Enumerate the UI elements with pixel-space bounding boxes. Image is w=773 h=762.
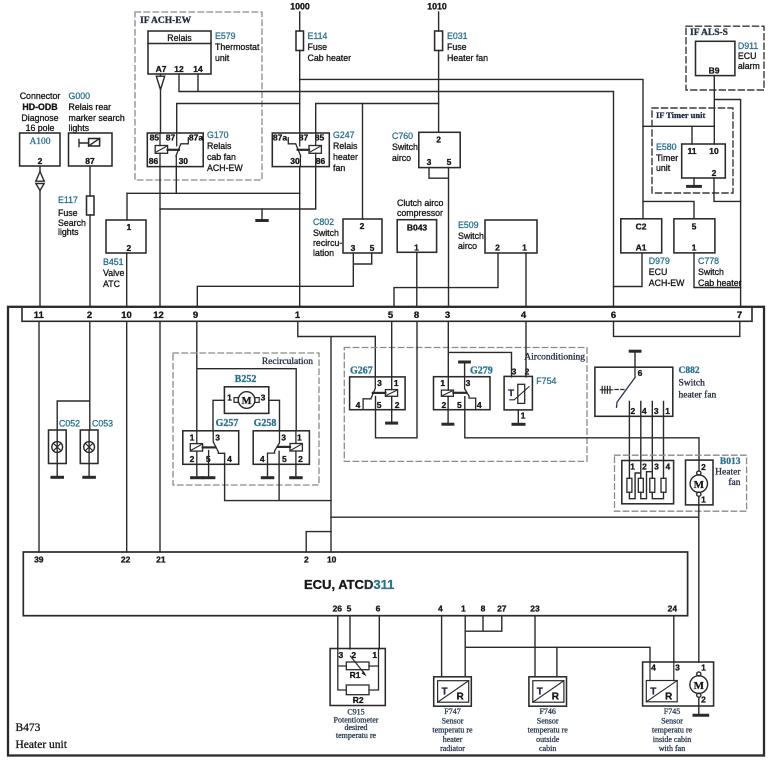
svg-text:G247: G247 [333, 130, 355, 140]
wire ECU 8,27 link [465, 616, 502, 632]
svg-text:6: 6 [611, 310, 616, 321]
wire E579 pins 12,14 to bus pin 6 [179, 74, 614, 307]
svg-text:IF ALS-S: IF ALS-S [690, 28, 728, 38]
wire C802 pins 3,5 join to bus 9 [197, 253, 371, 307]
svg-text:Heater unit: Heater unit [16, 739, 68, 751]
svg-text:3: 3 [466, 378, 471, 388]
wire y126 link to E114 rail [643, 125, 714, 127]
ECU ATC D311 box [23, 552, 687, 616]
svg-text:4: 4 [521, 310, 527, 321]
svg-text:1: 1 [190, 433, 195, 443]
fuse E117 search lights [58, 195, 94, 237]
connector symbol triangles [36, 172, 44, 191]
ground C053 [88, 464, 90, 476]
svg-text:B451: B451 [103, 257, 124, 267]
svg-text:Connector: Connector [20, 91, 61, 101]
svg-text:7: 7 [737, 310, 742, 321]
svg-text:3: 3 [654, 406, 659, 416]
svg-text:8: 8 [481, 604, 486, 614]
wire G267-5 to bus 8 [376, 321, 418, 438]
svg-text:Sensor: Sensor [537, 716, 559, 725]
svg-text:1000: 1000 [290, 2, 310, 12]
wire bus 12 to ECU 21 [159, 321, 161, 552]
ground C052 [56, 464, 58, 476]
svg-text:Timer: Timer [656, 153, 678, 163]
wire ECU-24 to F745-3 [673, 616, 675, 662]
svg-text:Relais: Relais [207, 141, 232, 151]
svg-text:temperatu re: temperatu re [652, 726, 693, 735]
ground F745-2 [698, 697, 700, 713]
svg-text:R: R [552, 692, 560, 703]
svg-text:Relais rear: Relais rear [69, 102, 112, 112]
svg-text:ATC: ATC [103, 279, 121, 289]
svg-text:12: 12 [153, 310, 164, 321]
svg-text:3: 3 [261, 393, 266, 403]
connector A100 (HD-ODB diagnose) [20, 91, 61, 166]
svg-text:1: 1 [701, 495, 706, 505]
svg-text:4: 4 [438, 604, 443, 614]
svg-text:2: 2 [87, 310, 92, 321]
svg-text:10: 10 [121, 310, 132, 321]
wire G000 pin 87 down [89, 166, 91, 196]
svg-text:C778: C778 [698, 256, 719, 266]
svg-text:86: 86 [149, 156, 159, 166]
sensor F747 [434, 677, 472, 706]
svg-text:4: 4 [666, 462, 671, 472]
resistor R d [661, 478, 666, 492]
svg-text:2: 2 [701, 462, 706, 472]
svg-text:G170: G170 [207, 130, 229, 140]
wire bus 6-7 bridge below bar [614, 321, 740, 336]
svg-text:1: 1 [295, 310, 301, 321]
svg-text:1: 1 [630, 462, 635, 472]
svg-text:R1: R1 [350, 670, 361, 680]
svg-text:Fuse: Fuse [308, 42, 328, 52]
svg-text:Switch: Switch [698, 267, 724, 277]
fuse E114 cab heater [296, 31, 351, 63]
svg-text:2: 2 [712, 168, 717, 178]
svg-text:E117: E117 [58, 195, 78, 205]
wiper arrow [350, 656, 364, 673]
wire bus 11 to ECU 39 [38, 321, 40, 552]
ground F754-1 [517, 410, 519, 423]
svg-text:1: 1 [414, 243, 419, 253]
svg-text:Heater fan: Heater fan [447, 53, 488, 63]
fuse E031 heater fan [435, 31, 489, 63]
relay G267 [350, 366, 406, 411]
svg-text:outside: outside [536, 735, 560, 744]
svg-text:4: 4 [651, 663, 656, 673]
svg-text:C052: C052 [59, 419, 80, 429]
svg-text:5: 5 [347, 604, 352, 614]
resistor R a [627, 478, 632, 492]
label G247 [333, 130, 358, 173]
svg-text:1: 1 [440, 378, 445, 388]
bus pin bar [22, 307, 752, 322]
svg-text:E509: E509 [458, 220, 479, 230]
thermo switch F754 [504, 367, 556, 421]
wire bus 3 to G279-1 and F754-3 [448, 321, 511, 390]
relay G000 rear marker search lights [69, 91, 125, 166]
svg-text:with fan: with fan [659, 744, 685, 753]
ground tap on net 86 [261, 209, 263, 219]
svg-text:fan: fan [728, 477, 740, 488]
svg-text:3: 3 [427, 157, 432, 167]
switch C778 cab heater [674, 219, 742, 288]
wire C778-5 to E114 rail [643, 201, 694, 218]
ECU ACH-EW D979 [621, 219, 685, 288]
dashed box IF ALS-S [686, 26, 764, 90]
resistor R b [638, 478, 643, 492]
svg-text:4: 4 [642, 406, 647, 416]
wire G257-4 / G258-5 to node line [225, 451, 331, 500]
svg-text:M: M [694, 680, 705, 692]
svg-text:2: 2 [395, 400, 400, 410]
svg-text:B043: B043 [407, 223, 428, 233]
svg-text:B9: B9 [709, 66, 720, 76]
timer unit E580 [656, 142, 725, 178]
wire B013-1 down to F745-1 [698, 496, 700, 662]
svg-text:ECU, ATCD311: ECU, ATCD311 [304, 577, 394, 592]
svg-text:Switch: Switch [458, 231, 484, 241]
svg-text:3: 3 [512, 367, 517, 377]
svg-text:fan: fan [333, 163, 345, 173]
svg-text:A1: A1 [636, 243, 647, 253]
wire bus 2 to lamps [57, 321, 90, 430]
potentiometer C915 [330, 649, 385, 706]
svg-text:87: 87 [85, 156, 95, 166]
svg-text:87a: 87a [273, 132, 287, 142]
svg-text:Valve: Valve [103, 268, 124, 278]
svg-text:24: 24 [668, 604, 678, 614]
svg-text:5: 5 [457, 400, 462, 410]
svg-text:E031: E031 [447, 31, 468, 41]
svg-text:85: 85 [150, 132, 160, 142]
svg-text:G267: G267 [350, 366, 373, 377]
svg-text:5: 5 [388, 310, 394, 321]
svg-text:F754: F754 [536, 376, 556, 386]
connector B043 [397, 220, 436, 253]
label C882 [679, 366, 717, 401]
wire bus 10 to ECU 22 [126, 321, 128, 552]
svg-text:G000: G000 [69, 91, 91, 101]
ground G257-2 [196, 464, 198, 476]
svg-text:Switch: Switch [313, 228, 339, 238]
svg-text:E579: E579 [215, 31, 236, 41]
switch C802 recirculation [313, 217, 382, 258]
resistor R c [650, 478, 655, 492]
svg-text:C053: C053 [92, 419, 113, 429]
svg-text:6: 6 [638, 368, 643, 378]
inverted ground C882-6 [630, 350, 640, 353]
wire net 86: G170-86 to G247-86 [160, 167, 316, 209]
svg-text:1: 1 [665, 406, 670, 416]
internal resistor chain wiring [629, 461, 663, 499]
wire A100 to bus pin 11 [39, 191, 41, 308]
svg-text:G279: G279 [470, 366, 493, 377]
svg-text:M: M [694, 479, 705, 491]
dashed box IF Timer unit [652, 108, 733, 193]
label F745 [652, 707, 693, 753]
relay G279 [434, 366, 493, 411]
svg-text:9: 9 [193, 310, 198, 321]
svg-text:Sensor: Sensor [442, 716, 464, 725]
svg-text:87: 87 [166, 132, 176, 142]
wire G247-85 / 1010 net [316, 104, 439, 134]
svg-text:Heater: Heater [715, 468, 741, 478]
switch E509 airco [458, 220, 537, 253]
svg-text:5: 5 [447, 157, 452, 167]
svg-text:4: 4 [227, 454, 232, 464]
svg-text:R2: R2 [353, 695, 364, 705]
svg-text:C2: C2 [636, 222, 647, 232]
svg-text:2: 2 [360, 221, 365, 231]
svg-text:2: 2 [38, 156, 43, 166]
svg-text:compressor: compressor [397, 208, 443, 218]
svg-text:T: T [442, 687, 448, 698]
svg-text:23: 23 [530, 604, 540, 614]
svg-text:26: 26 [333, 604, 343, 614]
wire C760 pins 3,5 join to bus 3 [429, 168, 449, 307]
svg-text:2: 2 [701, 695, 706, 705]
svg-text:IF ACH-EW: IF ACH-EW [140, 16, 192, 26]
wire F746 right riser [556, 647, 558, 677]
wire ECU-23 to F746 [534, 616, 536, 677]
svg-text:B473: B473 [16, 722, 41, 734]
svg-text:ACH-EW: ACH-EW [649, 278, 685, 288]
svg-text:6: 6 [376, 604, 381, 614]
wire E509-2 to bus 5 [394, 253, 498, 307]
svg-text:2: 2 [127, 243, 132, 253]
inverted ground G279-3 [460, 361, 470, 364]
svg-text:marker search: marker search [69, 113, 125, 123]
svg-text:3: 3 [339, 650, 344, 660]
motor B252 [224, 374, 268, 413]
svg-text:heater: heater [443, 735, 463, 744]
svg-text:27: 27 [497, 604, 507, 614]
svg-text:lation: lation [313, 248, 334, 258]
svg-text:1: 1 [227, 393, 232, 403]
svg-text:1: 1 [394, 378, 399, 388]
svg-text:E580: E580 [656, 142, 677, 152]
B013 fan motor [686, 460, 714, 505]
label B473 heater unit [16, 722, 68, 751]
svg-text:Fuse: Fuse [447, 42, 467, 52]
svg-text:airco: airco [458, 241, 477, 251]
wire G247-30 to bus 1 [299, 167, 301, 307]
wire ECU-4 to F747 [441, 616, 443, 677]
relay G257 [183, 418, 239, 464]
svg-text:Switch: Switch [679, 379, 706, 389]
svg-text:A100: A100 [29, 137, 50, 147]
wire B252-3 to G258-3 [269, 400, 280, 430]
label C915 [334, 708, 379, 740]
wire D979-A1 to bus 6 rail [614, 253, 643, 287]
wire G279-5 to B013 motor [465, 397, 699, 460]
svg-text:Diagnose: Diagnose [21, 113, 58, 123]
svg-text:ACH-EW: ACH-EW [207, 163, 243, 173]
svg-text:2: 2 [304, 555, 309, 565]
wire B252-1 to G257-3 [213, 400, 224, 430]
wire G267-3 riser [374, 337, 376, 377]
svg-text:C802: C802 [313, 217, 334, 227]
svg-text:heater: heater [333, 152, 358, 162]
dashed box B013 heater fan [615, 455, 747, 511]
svg-text:3: 3 [351, 243, 356, 253]
svg-text:unit: unit [215, 53, 230, 63]
wire ECU-1 to F747 [464, 616, 466, 677]
svg-text:F745: F745 [664, 707, 680, 716]
svg-text:R: R [457, 692, 465, 703]
svg-text:21: 21 [156, 555, 166, 565]
svg-text:D979: D979 [649, 256, 670, 266]
relay G247 heater fan [272, 132, 329, 166]
wire B451-2 to bus 10 [126, 253, 128, 307]
label F747 [432, 707, 473, 753]
wire 1000 feed [299, 12, 301, 31]
svg-text:Switch: Switch [392, 142, 418, 152]
svg-text:3: 3 [654, 462, 659, 472]
wire net G170-87 to E114 [177, 104, 300, 134]
wire bus 9 to G257-1 and G258-1 [197, 321, 296, 430]
svg-text:Airconditioning: Airconditioning [524, 353, 585, 363]
svg-text:5: 5 [282, 454, 287, 464]
ground G267-2 [391, 396, 393, 421]
wire E579 A7 with arrow [160, 74, 162, 76]
svg-text:E114: E114 [308, 31, 328, 41]
svg-text:cabin: cabin [539, 744, 556, 753]
resistor R1 [346, 662, 369, 670]
wire B043-1 to bus 8 [416, 252, 418, 307]
wire B9 down and to bus 7 [714, 76, 740, 307]
svg-text:2: 2 [298, 454, 303, 464]
svg-text:T: T [508, 388, 514, 399]
svg-text:2: 2 [642, 462, 647, 472]
svg-text:4: 4 [477, 400, 482, 410]
wire E114 branch to D979 C2 [300, 79, 643, 218]
lamp C052 [49, 419, 81, 464]
wire ECU-2 step [306, 532, 331, 552]
svg-text:8: 8 [414, 310, 419, 321]
wire C802-2 riser [362, 104, 364, 220]
svg-text:1: 1 [297, 433, 302, 443]
svg-text:Sensor: Sensor [661, 716, 683, 725]
svg-text:1: 1 [701, 663, 706, 673]
svg-text:Cab heater: Cab heater [308, 53, 352, 63]
svg-text:Relais: Relais [333, 141, 358, 151]
svg-text:3: 3 [281, 433, 286, 443]
svg-text:R: R [665, 692, 673, 703]
svg-text:5: 5 [377, 400, 382, 410]
svg-text:B252: B252 [235, 374, 257, 385]
svg-text:M: M [242, 396, 252, 407]
wire E580-2 to bus7 rail [714, 178, 741, 201]
outer box B473 heater unit [8, 307, 764, 756]
svg-text:B013: B013 [720, 457, 741, 467]
svg-text:5: 5 [692, 222, 697, 232]
dashed box Airconditioning [344, 348, 587, 462]
svg-text:39: 39 [34, 555, 44, 565]
svg-text:30: 30 [179, 156, 189, 166]
wire bus 4 to F754-2 [525, 321, 527, 377]
ground G257-5 [208, 464, 210, 476]
svg-text:airco: airco [392, 153, 411, 163]
wires ECU 26,5,6 to C915 [338, 616, 380, 649]
switch C760 airco [392, 131, 460, 168]
svg-text:86: 86 [316, 156, 326, 166]
sensor F746 [529, 677, 567, 706]
wire sensor common line [465, 647, 650, 662]
svg-text:C760: C760 [392, 131, 413, 141]
svg-text:recircu-: recircu- [313, 238, 342, 248]
svg-text:temperatu re: temperatu re [336, 731, 377, 740]
svg-text:radiator: radiator [440, 744, 465, 753]
svg-text:3: 3 [377, 378, 382, 388]
svg-text:1010: 1010 [427, 2, 447, 12]
label F746 [528, 707, 569, 753]
svg-text:16 pole: 16 pole [26, 123, 55, 133]
wire C778-1 to bus 7 rail [694, 253, 741, 288]
svg-text:F747: F747 [444, 707, 460, 716]
sensor with fan F745 [643, 662, 714, 706]
svg-text:C882: C882 [679, 366, 700, 376]
label G170 [207, 130, 243, 173]
svg-text:1: 1 [461, 604, 466, 614]
svg-text:1: 1 [372, 650, 377, 660]
wire 1010 feed [438, 12, 440, 31]
svg-text:Relais: Relais [167, 33, 192, 43]
svg-text:cab fan: cab fan [207, 152, 236, 162]
svg-text:2: 2 [436, 135, 441, 145]
svg-text:temperatu re: temperatu re [528, 726, 569, 735]
svg-text:12: 12 [174, 64, 184, 74]
svg-text:4: 4 [356, 400, 361, 410]
wire bus 5 to G267-1 coil [391, 321, 393, 389]
svg-text:1: 1 [692, 243, 697, 253]
svg-text:1: 1 [522, 243, 527, 253]
wire G170-30 tap [175, 167, 177, 194]
svg-text:3: 3 [215, 433, 220, 443]
svg-text:lights: lights [58, 227, 79, 237]
svg-text:IF Timer unit: IF Timer unit [656, 110, 705, 120]
relay G170 cab fan [147, 132, 203, 166]
wire E117 to bus pin 2 [89, 215, 91, 307]
bus pin numbers [34, 310, 742, 321]
svg-text:D911: D911 [738, 41, 758, 51]
svg-text:lights: lights [69, 123, 90, 133]
svg-text:Cab heater: Cab heater [698, 278, 742, 288]
svg-text:G257: G257 [216, 418, 239, 429]
wire E580-11 riser [691, 126, 693, 144]
svg-text:10: 10 [709, 146, 719, 156]
svg-text:Recirculation: Recirculation [262, 357, 313, 367]
svg-text:4: 4 [260, 454, 265, 464]
svg-text:22: 22 [121, 555, 131, 565]
ground G258-4 [267, 464, 269, 476]
svg-text:1: 1 [521, 411, 526, 421]
resistor R2 [346, 685, 369, 695]
thermostat unit E579 [148, 31, 260, 74]
svg-text:87a: 87a [189, 132, 203, 142]
svg-text:A7: A7 [156, 64, 167, 74]
svg-text:ECU: ECU [649, 267, 668, 277]
svg-text:2: 2 [631, 406, 636, 416]
svg-text:2: 2 [190, 454, 195, 464]
ground E580 [693, 178, 695, 185]
wires C882 pins to B013 resistors [629, 401, 663, 460]
wire E114 down to G247 pin 87 [299, 51, 301, 133]
svg-text:Clutch airco: Clutch airco [397, 198, 444, 208]
